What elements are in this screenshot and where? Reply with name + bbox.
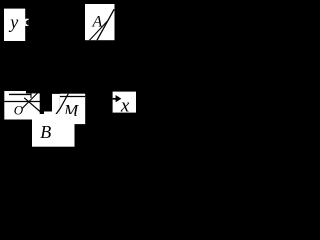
x arrow box patch — [113, 92, 136, 113]
y-axis vertical segment — [30, 92, 32, 99]
svg-text:x: x — [120, 96, 130, 117]
B patch — [32, 114, 75, 147]
line OA through origin junction — [22, 92, 38, 108]
background (transparent canvas renders as black) — [0, 0, 138, 155]
segment through origin to vertex B — [24, 98, 51, 121]
label box A (white patch) — [85, 4, 115, 40]
label box y (white patch) — [4, 9, 25, 41]
y-axis arrowhead wedge — [26, 19, 29, 26]
M box patch — [60, 94, 85, 124]
y-axis arrow bump patch — [25, 19, 29, 26]
short upper horizontal line — [9, 93, 31, 95]
O axis strip patch left — [4, 91, 26, 120]
x-axis arrowhead — [116, 95, 122, 102]
x-axis through M box — [60, 96, 85, 98]
white patch under notch — [44, 112, 52, 115]
svg-text:B: B — [40, 122, 51, 142]
graph right arm through M — [51, 94, 68, 121]
bridge white patch right of black notch — [52, 94, 60, 114]
svg-text:y: y — [8, 12, 18, 32]
line through A (graph right arm), main slash — [97, 9, 114, 40]
x-axis main line — [4, 101, 60, 103]
svg-text:O: O — [14, 102, 24, 117]
second slash in A box — [90, 21, 108, 40]
x-axis arrow shaft — [113, 98, 117, 100]
O axis strip patch right — [26, 93, 40, 119]
